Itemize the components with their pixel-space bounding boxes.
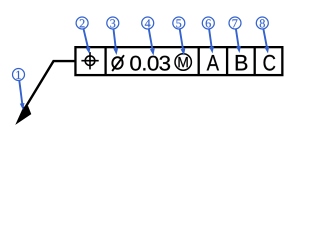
- balloon digit 1: [16, 71, 20, 79]
- balloon circle 8: [256, 17, 268, 29]
- MMC modifier letter M: [178, 57, 187, 67]
- leader line 6: [209, 29, 212, 50]
- leader line 4: [149, 29, 153, 52]
- leader line 3: [114, 29, 117, 52]
- leader arrowhead 7: [236, 46, 241, 53]
- balloon circle 6: [202, 17, 214, 29]
- balloon circle 3: [107, 17, 119, 29]
- divider tolerance: [104, 47, 106, 75]
- leader arrowhead 6: [209, 46, 214, 53]
- divider datum B: [226, 47, 228, 75]
- balloon circle 7: [229, 17, 241, 29]
- leader line 7: [236, 29, 239, 50]
- balloon circle 5: [173, 17, 185, 29]
- balloon digit 3: [110, 19, 115, 27]
- position symbol: [81, 52, 98, 69]
- balloon digit 2: [80, 19, 85, 27]
- leader arrowhead 1: [20, 103, 25, 110]
- wire leader from frame to feature: [23, 61, 76, 112]
- leader arrowhead 5: [181, 48, 186, 55]
- leader line 2: [84, 29, 89, 51]
- MMC modifier circle: [175, 54, 191, 70]
- datum A: [207, 55, 219, 70]
- balloon circle 1: [13, 69, 25, 81]
- leader line 8: [263, 29, 267, 50]
- callout leader lines: [19, 29, 267, 107]
- leader arrowhead 2: [86, 47, 91, 54]
- balloon digit 7: [233, 19, 238, 27]
- leader arrowhead: [16, 106, 31, 124]
- leader line 5: [180, 29, 184, 52]
- balloon digit 4: [145, 19, 151, 27]
- leader arrowhead 4: [150, 48, 155, 55]
- divider datum C: [254, 47, 256, 75]
- balloon digit 5: [176, 19, 181, 27]
- divider datum A: [198, 47, 200, 75]
- balloon circle 4: [142, 17, 154, 29]
- tolerance value 0.03: [130, 56, 170, 71]
- diameter symbol: [112, 55, 124, 71]
- leader line 1: [19, 81, 22, 107]
- callout leader arrowheads: [20, 46, 269, 110]
- balloon digit 6: [206, 19, 211, 27]
- balloon circle 2: [76, 17, 88, 29]
- balloon digit 8: [260, 19, 265, 27]
- datum C: [264, 55, 276, 71]
- datum B: [236, 55, 248, 70]
- leader arrowhead 3: [113, 48, 118, 55]
- leader arrowhead 8: [264, 46, 269, 53]
- callout balloons: [13, 17, 269, 81]
- feature control frame box: [75, 47, 282, 75]
